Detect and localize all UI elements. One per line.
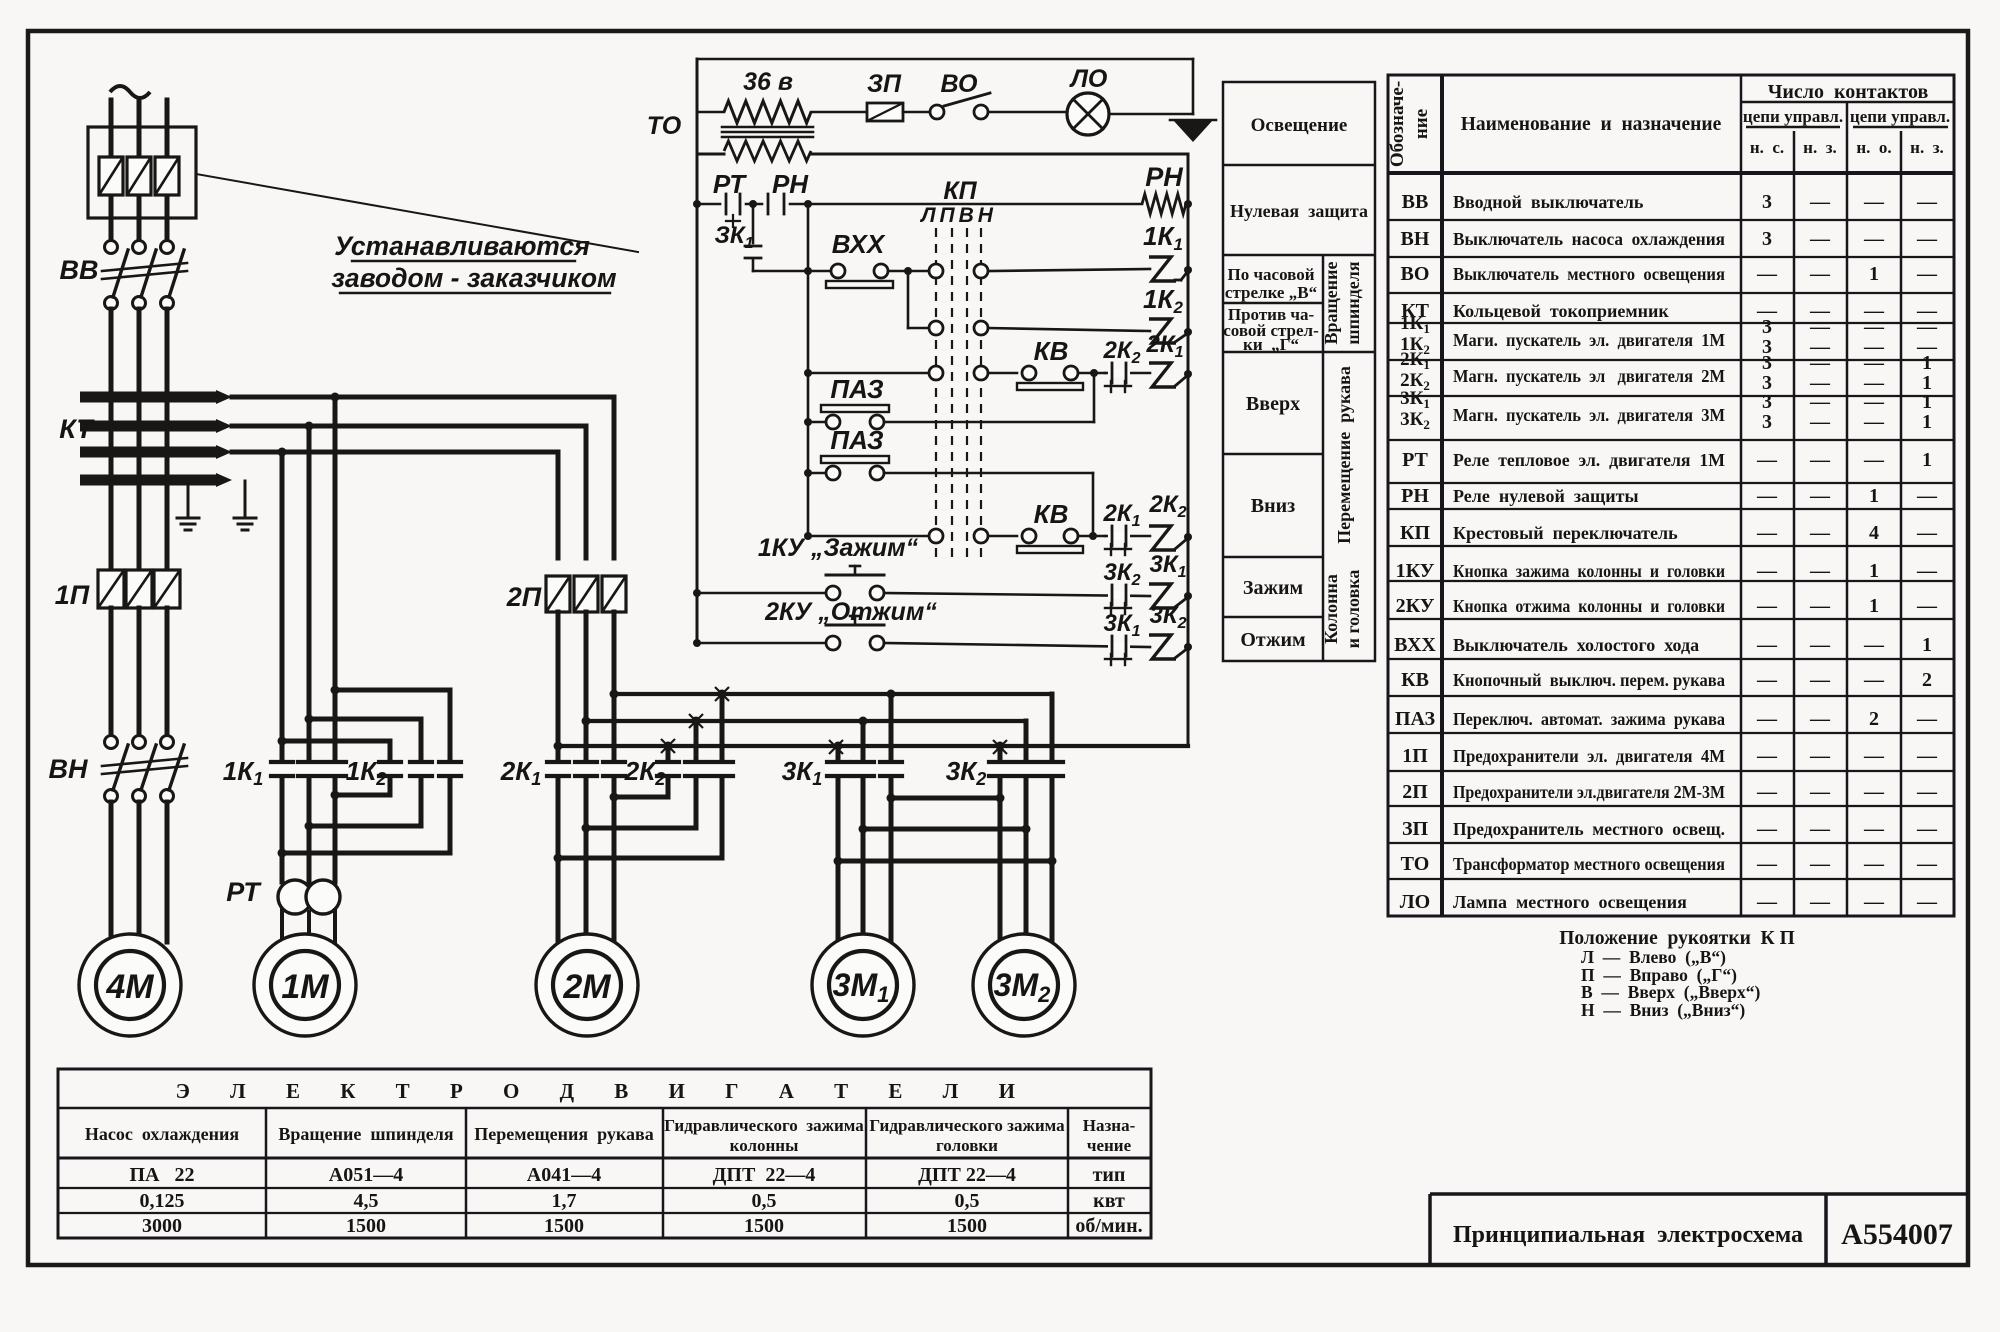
svg-text:—: — (1756, 891, 1778, 913)
svg-text:КВ: КВ (1034, 499, 1069, 529)
svg-text:н. о.: н. о. (1856, 138, 1891, 157)
svg-text:Вводной выключатель: Вводной выключатель (1453, 192, 1644, 212)
1M crossover top loops (282, 739, 390, 744)
interlock contact 3K2 (1108, 591, 1130, 599)
relay RN coil (resistor) (1142, 194, 1186, 214)
svg-text:Трансформатор местного освещен: Трансформатор местного освещения (1453, 854, 1725, 874)
svg-text:ТО: ТО (1401, 853, 1430, 875)
lighting circuit top wire (697, 58, 1193, 61)
ring collector KT (80, 392, 216, 403)
svg-text:Вращение шпинделя: Вращение шпинделя (278, 1124, 453, 1144)
circuit function label column (1223, 82, 1375, 661)
transformer TO primary with 36v winding (697, 111, 724, 114)
wires 1M phase verticals (280, 452, 285, 762)
motor 3M1 (812, 934, 914, 1036)
switch PAZ upper (808, 421, 826, 424)
up row wire (808, 372, 929, 375)
svg-text:КТ: КТ (59, 414, 95, 444)
svg-text:—: — (1863, 891, 1885, 913)
svg-text:—: — (1916, 560, 1938, 582)
svg-text:—: — (1809, 634, 1831, 656)
svg-text:—: — (1809, 595, 1831, 617)
supply wires L1 L2 L3 (109, 100, 114, 247)
1M crossover bottom loops (388, 774, 393, 795)
svg-text:—: — (1756, 522, 1778, 544)
svg-text:—: — (1809, 669, 1831, 691)
svg-text:—: — (1916, 708, 1938, 730)
svg-text:В — Вверх („Вверх“): В — Вверх („Вверх“) (1581, 982, 1760, 1002)
svg-text:—: — (1863, 391, 1885, 413)
svg-text:чение: чение (1087, 1136, 1132, 1155)
KP contacts row 3 (929, 366, 943, 380)
svg-text:Гидравлического зажима: Гидравлического зажима (664, 1116, 864, 1135)
fuse L3 (155, 157, 179, 195)
svg-text:стрелке „В“: стрелке „В“ (1225, 283, 1317, 302)
svg-text:—: — (1916, 595, 1938, 617)
svg-text:—: — (1809, 485, 1831, 507)
phase feeder from KT bar3 (232, 450, 558, 455)
svg-text:—: — (1756, 560, 1778, 582)
svg-text:—: — (1863, 781, 1885, 803)
svg-text:2К2: 2К2 (1102, 337, 1140, 367)
svg-text:ЛО: ЛО (1069, 65, 1108, 93)
svg-text:А041—4: А041—4 (527, 1164, 601, 1186)
svg-text:1,7: 1,7 (552, 1190, 577, 1212)
KP contacts row 2 (908, 327, 929, 330)
svg-text:Реле тепловое эл. двигателя: Реле тепловое эл. двигателя 1М (1453, 450, 1725, 470)
svg-text:Назна-: Назна- (1083, 1116, 1136, 1135)
svg-text:—: — (1863, 818, 1885, 840)
svg-text:ВН: ВН (49, 754, 88, 784)
motor 2M (536, 934, 638, 1036)
electric motors table (58, 1069, 1151, 1238)
svg-text:—: — (1863, 745, 1885, 767)
svg-text:1П: 1П (55, 580, 90, 610)
customer-installed fuse box (88, 127, 196, 218)
svg-text:1500: 1500 (947, 1215, 987, 1237)
svg-text:—: — (1809, 891, 1831, 913)
svg-text:шпинделя: шпинделя (1343, 261, 1363, 345)
svg-text:Предохранители эл. двигателя: Предохранители эл. двигателя 4М (1453, 746, 1725, 766)
svg-text:3: 3 (1762, 191, 1772, 213)
wires 2M phase verticals (556, 612, 561, 762)
svg-text:—: — (1809, 449, 1831, 471)
svg-text:ВВ: ВВ (1402, 191, 1429, 213)
svg-text:—: — (1916, 228, 1938, 250)
svg-text:Кнопка зажима колонны и го: Кнопка зажима колонны и головки (1453, 561, 1725, 581)
svg-text:4: 4 (1869, 522, 1879, 544)
interlock contact 3K1 (1108, 642, 1130, 650)
svg-text:—: — (1809, 391, 1831, 413)
svg-text:1К1: 1К1 (223, 756, 263, 789)
svg-text:Кнопочный выключ. перем. рука: Кнопочный выключ. перем. рукава (1453, 670, 1725, 690)
svg-text:3: 3 (1762, 228, 1772, 250)
3K1 holding bypass branch (752, 204, 755, 243)
wires RT to motor 1M (280, 910, 284, 950)
svg-text:ЛПВН: ЛПВН (919, 204, 997, 227)
svg-text:Вверх: Вверх (1246, 393, 1300, 415)
svg-text:заводом - заказчиком: заводом - заказчиком (331, 263, 617, 293)
svg-text:—: — (1916, 263, 1938, 285)
svg-text:н. с.: н. с. (1750, 138, 1784, 157)
switch BB (main input switch) (105, 241, 118, 254)
leader line to note (196, 174, 638, 252)
svg-text:1: 1 (1869, 263, 1879, 285)
svg-text:3К2: 3К2 (946, 756, 986, 789)
svg-text:КП: КП (1400, 522, 1431, 544)
idle switch VXX row (753, 270, 831, 273)
svg-text:3: 3 (1762, 391, 1772, 413)
svg-text:—: — (1916, 853, 1938, 875)
svg-text:1К1: 1К1 (1143, 221, 1183, 254)
svg-text:Магн. пускатель эл двигате: Магн. пускатель эл двигателя 2М (1453, 366, 1725, 386)
svg-text:—: — (1916, 891, 1938, 913)
svg-text:РТ: РТ (1402, 449, 1428, 471)
switch VN (coolant pump switch) (105, 736, 118, 749)
svg-text:А554007: А554007 (1841, 1218, 1953, 1251)
svg-text:Зажим: Зажим (1243, 577, 1303, 599)
wires 1P to VN (109, 608, 114, 742)
svg-text:—: — (1756, 263, 1778, 285)
svg-text:1: 1 (1922, 391, 1932, 413)
feeder bus A to 3M and control (558, 744, 1188, 748)
svg-text:—: — (1863, 316, 1885, 338)
wires BB to KT (109, 309, 114, 570)
svg-text:Гидравлического зажима: Гидравлического зажима (869, 1116, 1065, 1135)
svg-text:2: 2 (1869, 708, 1879, 730)
contactor 1K2 main contacts (377, 764, 403, 775)
svg-text:1500: 1500 (346, 1215, 386, 1237)
interlock contact 2K2 (1105, 372, 1150, 375)
svg-text:ВХХ: ВХХ (832, 229, 886, 259)
svg-text:РН: РН (1401, 485, 1429, 507)
svg-text:0,5: 0,5 (955, 1190, 980, 1212)
svg-text:—: — (1809, 411, 1831, 433)
svg-text:4,5: 4,5 (354, 1190, 379, 1212)
svg-text:—: — (1809, 191, 1831, 213)
svg-text:—: — (1756, 669, 1778, 691)
2M crossover loop verticals (666, 746, 671, 762)
svg-text:Э Л Е К Т Р О Д В И Г А Т Е Л: Э Л Е К Т Р О Д В И Г А Т Е Л И (176, 1079, 1033, 1103)
svg-text:ние: ние (1411, 109, 1432, 139)
AC supply symbol (110, 86, 150, 98)
svg-text:Маги. пускатель эл. двигате: Маги. пускатель эл. двигателя 1М (1453, 330, 1725, 350)
svg-text:2К1: 2К1 (1145, 331, 1183, 361)
motor 3M2 (973, 934, 1075, 1036)
junction taps to 1M branch (331, 393, 340, 402)
svg-text:—: — (1756, 449, 1778, 471)
contactor 2K2 main contacts (655, 764, 681, 775)
thermal relay RT contact (725, 194, 728, 214)
svg-text:Нулевая защита: Нулевая защита (1230, 201, 1368, 221)
svg-text:Выключатель местного освещен: Выключатель местного освещения (1453, 264, 1725, 284)
svg-text:2К1: 2К1 (1102, 500, 1140, 530)
svg-text:—: — (1916, 316, 1938, 338)
svg-text:Лампа местного освещения: Лампа местного освещения (1453, 892, 1687, 912)
wires 3M1 phase verticals (836, 746, 841, 762)
svg-text:—: — (1809, 560, 1831, 582)
svg-text:Кнопка отжима колонны и го: Кнопка отжима колонны и головки (1453, 596, 1725, 616)
svg-text:—: — (1916, 485, 1938, 507)
feeder bus B to 3M (586, 719, 1026, 723)
svg-text:—: — (1756, 781, 1778, 803)
svg-text:—: — (1863, 634, 1885, 656)
svg-text:ПАЗ: ПАЗ (830, 425, 883, 455)
svg-text:1КУ: 1КУ (1396, 560, 1435, 582)
svg-text:ПА 22: ПА 22 (130, 1164, 195, 1186)
svg-text:—: — (1809, 781, 1831, 803)
svg-text:—: — (1916, 191, 1938, 213)
svg-text:Вниз: Вниз (1251, 495, 1295, 517)
contactor coil 2K1 (1149, 363, 1176, 387)
contactor 3K1 main contacts (825, 764, 851, 775)
svg-text:Перемещение рукава: Перемещение рукава (1334, 366, 1354, 544)
svg-text:ПАЗ: ПАЗ (1395, 708, 1436, 730)
svg-text:ПАЗ: ПАЗ (830, 374, 883, 404)
svg-text:1: 1 (1922, 634, 1932, 656)
svg-text:2М: 2М (562, 968, 611, 1006)
svg-text:КВ: КВ (1034, 336, 1069, 366)
fuse L1 (99, 157, 123, 195)
3M parallel links (891, 796, 1000, 801)
svg-text:Выключатель насоса охлаждени: Выключатель насоса охлаждения (1453, 229, 1725, 249)
svg-text:—: — (1756, 853, 1778, 875)
switch PAZ lower (808, 472, 826, 475)
svg-text:—: — (1809, 263, 1831, 285)
contactor coil 1K2 (1149, 319, 1176, 343)
junction cross marks (715, 687, 729, 701)
svg-text:КВ: КВ (1401, 669, 1429, 691)
svg-text:2К2: 2К2 (1148, 491, 1186, 521)
svg-text:—: — (1863, 191, 1885, 213)
down row wire (808, 535, 929, 538)
svg-text:РН: РН (1145, 162, 1183, 192)
svg-text:РТ: РТ (226, 877, 262, 907)
wires VN to motor 4M (109, 802, 114, 942)
motor 4M (79, 934, 181, 1036)
svg-text:Вращение: Вращение (1321, 262, 1341, 345)
contactor 3K2 main contacts (987, 764, 1013, 775)
svg-text:3000: 3000 (142, 1215, 182, 1237)
svg-text:ЛО: ЛО (1400, 891, 1430, 913)
svg-text:2: 2 (1922, 669, 1932, 691)
clamp row wire (697, 592, 826, 595)
right control bus (1187, 154, 1190, 746)
svg-text:ТО: ТО (647, 112, 682, 140)
svg-text:—: — (1809, 708, 1831, 730)
svg-text:Колонна: Колонна (1321, 574, 1341, 644)
svg-text:Н — Вниз („Вниз“): Н — Вниз („Вниз“) (1581, 1000, 1745, 1020)
svg-text:Кольцевой токоприемник: Кольцевой токоприемник (1453, 301, 1669, 321)
button switch KV (down) (1022, 529, 1036, 543)
svg-text:колонны: колонны (730, 1136, 799, 1155)
svg-text:1: 1 (1922, 449, 1932, 471)
contactor coil 3K1 (1149, 584, 1176, 608)
svg-text:1П: 1П (1402, 745, 1428, 767)
svg-text:РТ: РТ (713, 169, 747, 199)
svg-text:РН: РН (772, 169, 809, 199)
svg-text:цепи управл.: цепи управл. (1850, 107, 1950, 126)
svg-text:3К2: 3К2 (1103, 559, 1140, 589)
ground at KT (187, 486, 190, 502)
left control bus (696, 59, 699, 643)
svg-text:По часовой: По часовой (1227, 265, 1314, 284)
thermal relay RT heaters (278, 880, 312, 914)
svg-text:Предохранители эл.двигателя 2М: Предохранители эл.двигателя 2М-3М (1453, 782, 1725, 802)
title block (1430, 1194, 1968, 1265)
svg-text:ВО: ВО (941, 70, 978, 98)
svg-text:—: — (1863, 853, 1885, 875)
cross switch KP dashed poles (935, 228, 937, 560)
switch VO (930, 105, 944, 119)
svg-text:1500: 1500 (544, 1215, 584, 1237)
motor 1M (254, 934, 356, 1036)
svg-text:и головка: и головка (1343, 570, 1363, 649)
svg-text:Л — Влево („В“): Л — Влево („В“) (1581, 947, 1726, 967)
svg-text:—: — (1863, 411, 1885, 433)
svg-text:ВВ: ВВ (60, 255, 99, 285)
button switch KV (up) (1022, 366, 1036, 380)
svg-text:1: 1 (1869, 595, 1879, 617)
svg-text:А051—4: А051—4 (329, 1164, 403, 1186)
svg-text:Крестовый переключатель: Крестовый переключатель (1453, 523, 1678, 543)
svg-text:2П: 2П (1402, 781, 1428, 803)
svg-text:36 в: 36 в (743, 68, 793, 96)
svg-text:Отжим: Отжим (1240, 629, 1305, 651)
svg-text:3: 3 (1762, 316, 1772, 338)
svg-text:квт: квт (1093, 1190, 1125, 1212)
svg-text:ЗК1: ЗК1 (714, 222, 753, 252)
svg-text:Реле нулевой защиты: Реле нулевой защиты (1453, 486, 1639, 506)
svg-text:—: — (1756, 708, 1778, 730)
contactor coil 1K1 (1149, 257, 1176, 281)
svg-text:ВО: ВО (1401, 263, 1430, 285)
svg-text:Положение рукоятки К П: Положение рукоятки К П (1559, 928, 1795, 949)
svg-text:3К1: 3К1 (1103, 610, 1140, 640)
svg-text:1К2: 1К2 (1143, 284, 1183, 317)
svg-text:Устанавливаются: Устанавливаются (334, 231, 590, 261)
svg-text:н. з.: н. з. (1803, 138, 1837, 157)
svg-text:—: — (1756, 485, 1778, 507)
svg-text:ДПТ 22—4: ДПТ 22—4 (713, 1164, 816, 1186)
transformer TO secondary / control box top (697, 153, 724, 156)
lamp LO (1067, 93, 1109, 135)
svg-text:ВН: ВН (1401, 228, 1430, 250)
svg-text:—: — (1863, 669, 1885, 691)
svg-text:1КУ „Зажим“: 1КУ „Зажим“ (758, 534, 919, 562)
svg-text:2КУ: 2КУ (1396, 595, 1435, 617)
svg-text:—: — (1756, 745, 1778, 767)
contactor coil 3K2 (1149, 635, 1176, 659)
svg-text:ЗП: ЗП (867, 70, 902, 98)
contactor coil 2K2 (1149, 526, 1176, 550)
svg-text:ДПТ 22—4: ДПТ 22—4 (918, 1164, 1016, 1186)
pushbutton 2KU release (826, 636, 840, 650)
svg-text:Число контактов: Число контактов (1768, 81, 1929, 103)
svg-text:тип: тип (1093, 1164, 1126, 1186)
svg-text:КП: КП (943, 177, 977, 205)
svg-text:Наименование и назначение: Наименование и назначение (1461, 114, 1722, 135)
svg-text:—: — (1809, 352, 1831, 374)
pushbutton 1KU clamp (826, 586, 840, 600)
svg-text:—: — (1809, 522, 1831, 544)
svg-text:1: 1 (1869, 485, 1879, 507)
svg-text:—: — (1756, 595, 1778, 617)
svg-text:—: — (1916, 522, 1938, 544)
svg-text:3: 3 (1762, 352, 1772, 374)
svg-text:—: — (1863, 449, 1885, 471)
svg-text:—: — (1809, 228, 1831, 250)
svg-text:3К1: 3К1 (782, 756, 822, 789)
phase feeder from KT bar1 (232, 395, 614, 400)
svg-text:—: — (1756, 634, 1778, 656)
svg-text:Предохранитель местного осве: Предохранитель местного освещ. (1453, 819, 1725, 839)
svg-text:Выключатель холостого хода: Выключатель холостого хода (1453, 635, 1699, 655)
svg-text:—: — (1809, 316, 1831, 338)
relay RN contact (767, 194, 770, 214)
svg-text:1М: 1М (281, 968, 329, 1006)
svg-text:Магн. пускатель эл. двигате: Магн. пускатель эл. двигателя 3М (1453, 405, 1725, 425)
svg-text:—: — (1756, 818, 1778, 840)
svg-text:—: — (1916, 745, 1938, 767)
svg-text:3К2: 3К2 (1149, 602, 1186, 632)
transformer TO core (722, 126, 813, 129)
release row wire (697, 642, 826, 645)
ground at lamp loop (1173, 120, 1213, 142)
svg-text:головки: головки (936, 1136, 998, 1155)
KP contacts row 4 (929, 529, 943, 543)
svg-text:3: 3 (1762, 411, 1772, 433)
svg-text:—: — (1809, 853, 1831, 875)
svg-text:1: 1 (1922, 352, 1932, 374)
feeder bus C to 3M (614, 692, 1052, 696)
svg-text:Переключ. автомат. зажима р: Переключ. автомат. зажима рукава (1453, 709, 1725, 729)
svg-text:Освещение: Освещение (1251, 115, 1348, 136)
svg-text:Обозначе-: Обозначе- (1387, 81, 1408, 167)
svg-text:н. з.: н. з. (1910, 138, 1944, 157)
contactor 1K1 main contacts (269, 764, 295, 775)
svg-text:0,125: 0,125 (140, 1190, 185, 1212)
svg-text:—: — (1916, 781, 1938, 803)
svg-text:1: 1 (1869, 560, 1879, 582)
fuse ZP (867, 103, 903, 121)
svg-text:2КУ „Отжим“: 2КУ „Отжим“ (764, 598, 937, 626)
wires 3M2 phase verticals (998, 746, 1003, 762)
component list table (1388, 75, 1954, 916)
fuse L2 (127, 157, 151, 195)
svg-text:2П: 2П (506, 582, 542, 612)
svg-text:об/мин.: об/мин. (1075, 1215, 1142, 1237)
svg-text:2К1: 2К1 (500, 756, 541, 789)
svg-text:0,5: 0,5 (752, 1190, 777, 1212)
svg-text:Принципиальная электросхема: Принципиальная электросхема (1453, 1222, 1803, 1248)
svg-text:цепи управл.: цепи управл. (1743, 107, 1843, 126)
svg-text:ки „Г“: ки „Г“ (1243, 335, 1299, 354)
null protection bus (697, 203, 720, 206)
interlock contact 2K1 (1105, 535, 1150, 538)
svg-text:ВХХ: ВХХ (1394, 634, 1436, 656)
2M crossover bottom loops (666, 774, 671, 797)
limit link PAZ1 to up row (1093, 373, 1096, 422)
svg-text:—: — (1809, 818, 1831, 840)
svg-text:3К1: 3К1 (1149, 551, 1186, 581)
phase feeder from KT bar2 (232, 424, 586, 429)
svg-text:ЗП: ЗП (1402, 818, 1429, 840)
svg-text:Насос охлаждения: Насос охлаждения (85, 1124, 240, 1144)
svg-text:1500: 1500 (744, 1215, 784, 1237)
svg-text:—: — (1809, 745, 1831, 767)
svg-text:—: — (1863, 228, 1885, 250)
